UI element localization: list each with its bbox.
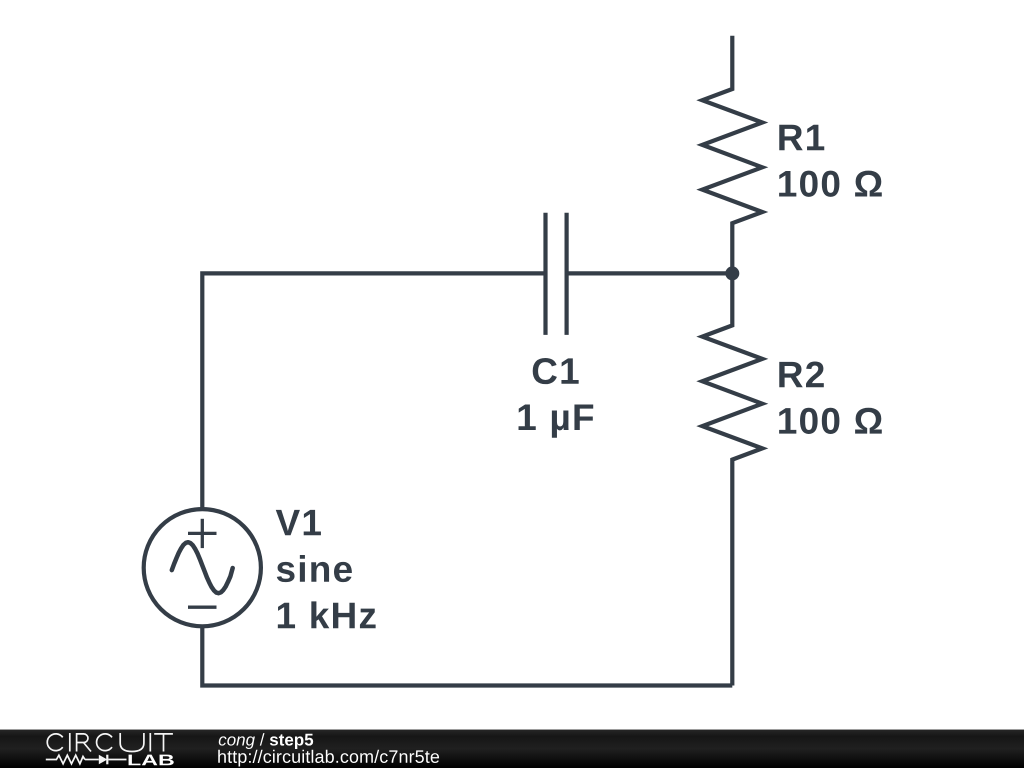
footer title cong / step5 bbox=[219, 733, 313, 749]
wire top-left (capacitor to V1) bbox=[202, 273, 545, 509]
label C1 designator bbox=[533, 358, 579, 384]
capacitor C1 right plate bbox=[564, 213, 568, 335]
label V1 frequency 1 kHz bbox=[278, 601, 376, 628]
logo wordmark LAB bbox=[129, 755, 174, 766]
label R2 value 100 ohm bbox=[779, 408, 882, 434]
logo resistor glyph bbox=[46, 755, 85, 764]
logo diode triangle bbox=[99, 755, 108, 765]
label V1 type sine bbox=[277, 555, 352, 582]
logo diode cathode bar bbox=[106, 755, 108, 765]
logo wordmark CIRCUIT bbox=[46, 733, 173, 764]
capacitor C1 left plate bbox=[543, 213, 547, 335]
wire capacitor to node bbox=[567, 271, 733, 275]
voltage source V1 circle bbox=[144, 509, 261, 626]
V1 minus sign bbox=[188, 606, 217, 609]
label V1 designator bbox=[276, 510, 321, 535]
resistor R2 bbox=[702, 273, 762, 685]
wire bottom (V1 to R2) bbox=[202, 626, 732, 686]
label C1 value 1 uF bbox=[519, 405, 594, 438]
resistor R1 bbox=[702, 36, 762, 274]
V1 sine symbol bbox=[172, 542, 233, 593]
footer bar bbox=[0, 730, 1024, 768]
label R2 designator bbox=[779, 361, 824, 387]
label R1 designator bbox=[779, 125, 824, 150]
node junction dot bbox=[725, 266, 739, 280]
footer url bbox=[218, 750, 439, 767]
label R1 value 100 ohm bbox=[779, 171, 882, 197]
V1 plus sign bbox=[201, 519, 204, 548]
